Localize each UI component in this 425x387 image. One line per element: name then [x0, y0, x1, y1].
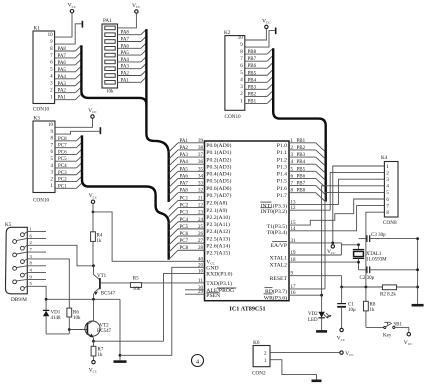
- svg-text:12: 12: [291, 206, 297, 211]
- wire PB8 (K2 pin 8): [245, 49, 273, 55]
- svg-text:GND: GND: [206, 265, 218, 271]
- svg-text:RXD(P3.0): RXD(P3.0): [206, 271, 232, 278]
- svg-text:38: 38: [198, 146, 204, 151]
- svg-text:13: 13: [291, 201, 297, 206]
- svg-text:PA7: PA7: [58, 54, 67, 59]
- svg-text:P0.7(AD7): P0.7(AD7): [206, 192, 231, 199]
- connector K6 CON2: [252, 340, 270, 377]
- svg-text:P0.4(AD4): P0.4(AD4): [206, 171, 231, 178]
- svg-text:VT1: VT1: [97, 274, 107, 279]
- svg-text:PA3: PA3: [180, 153, 189, 158]
- Vcc symbol (K3 pin 10): [88, 108, 97, 118]
- wire PC1 (K3 pin 1): [55, 183, 82, 189]
- ground plate (K1 pin 9): [81, 21, 83, 28]
- svg-text:PB4: PB4: [248, 78, 257, 83]
- svg-text:PC7: PC7: [180, 239, 189, 244]
- LED VD2: [308, 294, 332, 330]
- wire PB7 (K2 pin 7): [245, 56, 273, 62]
- svg-text:K4: K4: [381, 155, 388, 161]
- bus PA (K1/network to P0): [81, 29, 168, 202]
- wire EA node to crystal top: [341, 243, 360, 255]
- pin 21 P2.0 wire PC1: [169, 196, 228, 209]
- svg-text:PB6: PB6: [297, 174, 306, 179]
- svg-text:26: 26: [198, 232, 204, 237]
- svg-text:PB6: PB6: [248, 64, 257, 69]
- svg-text:23: 23: [198, 211, 204, 216]
- svg-text:PB3: PB3: [297, 153, 306, 158]
- svg-text:PC5: PC5: [58, 157, 67, 162]
- crystal XTAL1 11.0593M: [353, 245, 387, 270]
- svg-text:PB7: PB7: [297, 182, 306, 187]
- wire PA8 (network R8): [118, 30, 147, 36]
- svg-text:19: 19: [291, 251, 297, 256]
- svg-text:1k: 1k: [370, 308, 376, 313]
- svg-text:PC2: PC2: [180, 204, 189, 209]
- pin 9 RESET: [270, 272, 342, 282]
- svg-text:K5: K5: [5, 222, 12, 228]
- svg-text:Key: Key: [383, 333, 392, 338]
- svg-text:CON2: CON2: [252, 371, 266, 377]
- svg-text:PA6: PA6: [121, 44, 130, 49]
- svg-text:PC8: PC8: [180, 246, 189, 251]
- bus PB (K2 to P1): [273, 48, 326, 201]
- svg-text:PB4: PB4: [297, 160, 306, 165]
- svg-text:VT2: VT2: [100, 324, 110, 329]
- wire PA7 (network R7): [118, 36, 147, 42]
- wire PA4 (network R4): [118, 57, 147, 63]
- svg-text:BC547: BC547: [97, 329, 112, 334]
- svg-text:C2 30p: C2 30p: [360, 276, 375, 281]
- ground plate (K2 pin 9): [275, 28, 277, 35]
- svg-text:10: 10: [48, 123, 54, 128]
- svg-text:10k: 10k: [106, 90, 114, 95]
- svg-text:C1: C1: [348, 302, 354, 307]
- bus PC (K3 to P2): [82, 135, 169, 259]
- wire PB3 (K2 pin 3): [245, 84, 273, 90]
- svg-text:P2.4(A12): P2.4(A12): [206, 228, 230, 235]
- ground (rail): [114, 360, 127, 363]
- pin 30 ALE/PROG stub: [185, 286, 236, 294]
- wire PC6 (K3 pin 6): [55, 149, 82, 155]
- svg-text:P2.2(A10): P2.2(A10): [206, 214, 230, 221]
- pin 3 P1.2 wire PB3: [277, 153, 325, 166]
- wire K6 pin1 to ground: [270, 360, 317, 380]
- wire PC2 (K3 pin 2): [55, 176, 82, 182]
- connector K4 CON8: [381, 155, 398, 226]
- svg-text:K1: K1: [34, 26, 41, 32]
- wire K2 pin9 to plate: [245, 31, 275, 47]
- pin 1 P1.0 wire PB1: [277, 139, 325, 152]
- wire PB5 (K2 pin 5): [245, 70, 273, 76]
- svg-text:10: 10: [238, 36, 244, 41]
- Vcc symbol (K2 pin 10): [262, 18, 271, 28]
- connector K3 CON10: [33, 116, 55, 204]
- ground (right rail): [412, 304, 424, 307]
- svg-text:10k: 10k: [73, 316, 81, 321]
- svg-text:PA2: PA2: [121, 72, 130, 77]
- resistor R5 10k: [130, 276, 141, 292]
- wire PA8 (K1 pin 8): [55, 45, 82, 52]
- sheet number 4: [192, 355, 204, 367]
- pin 17 RD(P3.7): [265, 285, 326, 295]
- wire PA3 (K1 pin 3): [55, 80, 82, 87]
- node XTAL2/crystal bottom: [357, 261, 360, 264]
- resistor R4 1k: [91, 204, 103, 266]
- svg-text:P1.7: P1.7: [277, 193, 287, 199]
- svg-text:P1.6: P1.6: [277, 186, 287, 192]
- svg-text:BC547: BC547: [101, 291, 116, 296]
- wire K4 pin8 to R8/RESET row: [366, 212, 385, 287]
- wire K1 pin10 to Vcc: [55, 13, 72, 37]
- diode VD1 4148: [43, 299, 61, 334]
- resistor R6 10k: [67, 308, 81, 329]
- Vcc symbol (EA/VP): [327, 242, 336, 256]
- svg-text:PC2: PC2: [58, 178, 67, 183]
- pin 38 P0.1 wire PA2: [169, 146, 232, 159]
- svg-text:1k: 1k: [97, 239, 103, 244]
- wire DB9 pin3 to R6: [27, 259, 69, 308]
- svg-text:CON10: CON10: [33, 107, 50, 113]
- wire PC3 (K3 pin 3): [55, 169, 82, 175]
- svg-text:EA/VP: EA/VP: [271, 243, 287, 249]
- svg-text:P2.6(A14): P2.6(A14): [206, 242, 230, 249]
- pin 33 P0.6 wire PA7: [169, 182, 232, 195]
- pin 7 P1.6 wire PB7: [277, 182, 325, 195]
- wire PC7 (K3 pin 7): [55, 142, 82, 148]
- svg-text:33: 33: [198, 182, 204, 187]
- wire PA6 (network R6): [118, 43, 147, 49]
- wire K4 pin6 to T1: [289, 199, 384, 225]
- wire GND pin20: [120, 267, 205, 355]
- pin 28 P2.7 wire PC8: [169, 246, 231, 259]
- svg-text:XTAL2: XTAL2: [269, 262, 287, 268]
- node VT1 collector: [92, 264, 95, 267]
- svg-text:R8: R8: [370, 302, 376, 307]
- wire K4 pin1 to EA/Vcc node: [333, 166, 385, 243]
- svg-text:PA6: PA6: [180, 174, 189, 179]
- wire PC5 (K3 pin 5): [55, 156, 82, 162]
- svg-text:17: 17: [291, 285, 297, 290]
- transistor VT2 BC547: [85, 299, 112, 341]
- Vcc symbol (K6 pin2): [340, 351, 355, 357]
- svg-text:P1.4: P1.4: [277, 172, 287, 178]
- svg-text:P2.3(A11): P2.3(A11): [206, 221, 230, 228]
- svg-text:R5: R5: [133, 276, 139, 281]
- pin 40 Vcc label: [198, 257, 216, 265]
- ground plate (K3 pin 9): [99, 127, 101, 134]
- svg-text:18: 18: [291, 258, 297, 263]
- pin 23 P2.2 wire PC3: [169, 211, 231, 224]
- svg-text:CON10: CON10: [225, 114, 242, 120]
- connector K1 CON10: [33, 26, 55, 113]
- wire PA2 (K1 pin 2): [55, 87, 82, 94]
- svg-text:PA4: PA4: [121, 58, 130, 63]
- svg-text:28: 28: [198, 246, 204, 251]
- svg-text:P1.5: P1.5: [277, 179, 287, 185]
- pin 35 P0.4 wire PA5: [169, 167, 232, 180]
- svg-text:PB7: PB7: [248, 57, 257, 62]
- svg-text:PC5: PC5: [180, 225, 189, 230]
- svg-text:K3: K3: [34, 116, 41, 122]
- svg-text:PB5: PB5: [248, 71, 257, 76]
- pin 25 P2.4 wire PC5: [169, 225, 231, 238]
- svg-text:PB3: PB3: [248, 85, 257, 90]
- pin 13 INT1(P3.3): [261, 201, 339, 210]
- svg-text:XTAL1: XTAL1: [366, 252, 382, 257]
- svg-text:PB5: PB5: [297, 167, 306, 172]
- svg-text:31: 31: [291, 239, 297, 244]
- svg-text:PA1: PA1: [180, 139, 189, 144]
- svg-text:PA2: PA2: [180, 146, 189, 151]
- svg-text:22: 22: [198, 204, 204, 209]
- resistor R2 8.2k: [380, 285, 397, 297]
- svg-text:10: 10: [48, 33, 54, 38]
- svg-text:27: 27: [198, 239, 204, 244]
- pin 4 P1.3 wire PB4: [277, 160, 325, 173]
- Vcc symbol (R7 bottom): [89, 360, 98, 373]
- svg-text:PA7: PA7: [180, 182, 189, 187]
- wire PB2 (K2 pin 2): [245, 91, 273, 97]
- svg-text:39: 39: [198, 139, 204, 144]
- svg-text:PA5: PA5: [58, 68, 67, 73]
- wire PA5 (K1 pin 5): [55, 66, 82, 73]
- svg-text:11.0593M: 11.0593M: [366, 257, 387, 262]
- wire K3 pin9 to plate: [55, 131, 100, 134]
- svg-text:P1.1: P1.1: [277, 150, 287, 156]
- svg-text:29: 29: [198, 290, 204, 295]
- svg-text:21: 21: [198, 196, 204, 201]
- svg-text:INT0(P3.2): INT0(P3.2): [261, 208, 287, 215]
- svg-text:PC1: PC1: [58, 184, 67, 189]
- svg-text:PB2: PB2: [248, 92, 257, 97]
- svg-text:XTAL1: XTAL1: [269, 255, 287, 261]
- svg-text:PB1: PB1: [297, 139, 306, 144]
- pin 8 P1.7 wire PB8: [277, 189, 325, 202]
- svg-text:35: 35: [198, 167, 204, 172]
- pin 20 GND label: [198, 263, 219, 271]
- wire VD1/R6 bottom to VT2 base: [46, 328, 87, 334]
- Vcc symbol (C1 bottom): [337, 328, 346, 342]
- pin 36 P0.3 wire PA4: [169, 160, 232, 173]
- wire PC8 (K3 pin 8): [55, 135, 82, 141]
- pin 26 P2.5 wire PC6: [169, 232, 231, 245]
- svg-text:PA7: PA7: [121, 38, 130, 43]
- svg-text:SB1: SB1: [393, 323, 402, 328]
- svg-text:P2.0(A8): P2.0(A8): [206, 200, 227, 207]
- svg-text:R4: R4: [97, 233, 103, 238]
- svg-text:P2.5(A13): P2.5(A13): [206, 235, 230, 242]
- pin 14 T0(P3.4): [267, 227, 296, 236]
- svg-text:K2: K2: [224, 30, 231, 36]
- wire VT2 emitter to RXD: [92, 273, 204, 342]
- svg-text:PA3: PA3: [121, 65, 130, 70]
- wire PA1 (network R1): [118, 77, 147, 83]
- svg-text:P0.1(AD1): P0.1(AD1): [206, 149, 231, 156]
- svg-text:PA3: PA3: [58, 82, 67, 87]
- svg-text:PB8: PB8: [297, 189, 306, 194]
- svg-text:PB1: PB1: [248, 99, 257, 104]
- capacitor C2 30p: [359, 266, 418, 280]
- svg-text:PC6: PC6: [180, 232, 189, 237]
- resistor network PA1 10k: [102, 18, 118, 95]
- capacitor C3 30p: [359, 233, 418, 242]
- svg-text:PC6: PC6: [58, 150, 67, 155]
- wire network common to Vcc: [118, 13, 137, 28]
- svg-text:CON8: CON8: [383, 220, 397, 226]
- switch SB1 Key: [366, 322, 409, 338]
- transistor VT1 BC547: [94, 266, 116, 300]
- pin 22 P2.1 wire PC2: [169, 204, 228, 217]
- wire PA2 (network R2): [118, 70, 147, 76]
- wire K2 pin10 to Vcc: [245, 29, 267, 40]
- wire PB4 (K2 pin 4): [245, 77, 273, 83]
- wire PA6 (K1 pin 6): [55, 59, 82, 66]
- svg-text:R6: R6: [73, 310, 79, 315]
- svg-text:P2.7(A15): P2.7(A15): [206, 250, 230, 257]
- pin 15 T1(P3.5): [267, 221, 296, 230]
- connector K5 DB9/M: [5, 222, 27, 303]
- svg-text:PC3: PC3: [180, 211, 189, 216]
- wire TXD/R5 base row: [101, 282, 205, 284]
- svg-text:K6: K6: [253, 340, 260, 346]
- svg-text:C3 30p: C3 30p: [371, 233, 386, 238]
- wire PC4 (K3 pin 4): [55, 163, 82, 169]
- wire DB9 pin5 to ground rail: [27, 286, 46, 299]
- svg-text:PB8: PB8: [248, 50, 257, 55]
- svg-text:PA5: PA5: [180, 167, 189, 172]
- svg-text:R7: R7: [98, 347, 104, 352]
- wire DB9 pin2 to VT1 collector: [27, 245, 93, 265]
- pin 39 P0.0 wire PA1: [169, 139, 232, 152]
- svg-text:LED: LED: [308, 318, 318, 323]
- pin 10 RXD label: [198, 269, 232, 277]
- svg-text:P0.3(AD3): P0.3(AD3): [206, 163, 231, 170]
- svg-text:P0.0(AD0): P0.0(AD0): [206, 142, 231, 149]
- pin 27 P2.6 wire PC7: [169, 239, 231, 252]
- pin 19 XTAL1: [269, 251, 341, 261]
- wire PA3 (network R3): [118, 64, 147, 70]
- svg-text:P1.3: P1.3: [277, 164, 287, 170]
- svg-text:PA1: PA1: [121, 78, 130, 83]
- svg-text:PC8: PC8: [58, 137, 67, 142]
- IC IC1 AT89C51 (microcontroller body): [205, 141, 290, 312]
- wire RESET row: [340, 276, 417, 289]
- svg-text:36: 36: [198, 160, 204, 165]
- svg-text:1k: 1k: [98, 353, 104, 358]
- Vcc symbol (SB1): [404, 333, 413, 347]
- svg-text:PB2: PB2: [297, 146, 306, 151]
- wire PA4 (K1 pin 4): [55, 73, 82, 80]
- svg-text:PC4: PC4: [180, 218, 189, 223]
- svg-text:P1.2: P1.2: [277, 157, 287, 163]
- svg-text:P0.6(AD6): P0.6(AD6): [206, 185, 231, 192]
- svg-text:T0(P3.4): T0(P3.4): [267, 229, 287, 236]
- ground (VD2): [316, 330, 327, 333]
- svg-text:PA8: PA8: [180, 189, 189, 194]
- svg-text:24: 24: [198, 218, 204, 223]
- svg-text:PA4: PA4: [58, 75, 67, 80]
- wire K4 pin7 to T0: [289, 206, 384, 231]
- pin 6 P1.5 wire PB6: [277, 174, 325, 187]
- svg-text:PA8: PA8: [58, 47, 67, 52]
- wire PA5 (network R5): [118, 50, 147, 56]
- svg-text:PA2: PA2: [58, 89, 67, 94]
- wire K3 pin10 to Vcc: [55, 118, 93, 127]
- pin 32 P0.7 wire PA8: [169, 189, 232, 202]
- svg-text:37: 37: [198, 153, 204, 158]
- svg-text:CON10: CON10: [33, 198, 50, 204]
- Vcc symbol (R4): [89, 193, 98, 203]
- svg-text:P1.0: P1.0: [277, 143, 287, 149]
- svg-text:P0.5(AD5): P0.5(AD5): [206, 178, 231, 185]
- svg-text:RESET: RESET: [270, 276, 288, 282]
- pin 31 EA/VP: [271, 239, 342, 249]
- svg-text:VD1: VD1: [51, 310, 61, 315]
- svg-text:10μ: 10μ: [348, 308, 356, 313]
- pin 2 P1.1 wire PB2: [277, 146, 325, 159]
- capacitor C1 10u (polarized): [337, 287, 356, 328]
- svg-text:32: 32: [198, 189, 204, 194]
- Vcc symbol (K1 pin 10): [68, 3, 77, 13]
- svg-text:PA8: PA8: [121, 31, 130, 36]
- svg-text:PC4: PC4: [58, 164, 67, 169]
- svg-text:IC1 AT89C51: IC1 AT89C51: [229, 305, 265, 312]
- pin 37 P0.2 wire PA3: [169, 153, 232, 166]
- wire K4 pin2 to INT0: [330, 173, 384, 211]
- svg-text:R2 8.2k: R2 8.2k: [380, 292, 396, 297]
- wire Vcc branch to IC pin 40: [92, 211, 205, 262]
- svg-text:34: 34: [198, 174, 204, 179]
- svg-text:PA6: PA6: [58, 61, 67, 66]
- wire K4 pin5 to RD: [325, 192, 384, 289]
- wire PB1 (K2 pin 1): [245, 98, 273, 104]
- svg-text:VD2: VD2: [308, 312, 318, 317]
- Vcc symbol (network common): [132, 3, 141, 13]
- wire right rail: [416, 237, 419, 304]
- svg-text:WR(P3.6): WR(P3.6): [264, 295, 287, 302]
- svg-text:DB9/M: DB9/M: [11, 297, 27, 303]
- connector K2 CON10: [224, 30, 245, 120]
- pin 34 P0.5 wire PA6: [169, 174, 232, 187]
- svg-text:PC1: PC1: [180, 196, 189, 201]
- svg-text:PC3: PC3: [58, 171, 67, 176]
- ground (K6): [312, 379, 322, 382]
- wire PA7 (K1 pin 7): [55, 52, 82, 59]
- svg-text:PC7: PC7: [58, 144, 67, 149]
- svg-text:TXD(P3.1): TXD(P3.1): [206, 280, 232, 287]
- pin 16 WR(P3.6): [264, 291, 322, 302]
- svg-text:P2.1(A9): P2.1(A9): [206, 207, 227, 214]
- resistor R7 1k: [91, 341, 104, 360]
- resistor R8 1k: [364, 287, 376, 327]
- wire K4 pin4 to WR: [322, 186, 385, 295]
- svg-text:25: 25: [198, 225, 204, 230]
- pin 24 P2.3 wire PC4: [169, 218, 230, 231]
- svg-text:PA4: PA4: [180, 160, 189, 165]
- pin 29 PSEN stub: [185, 290, 220, 299]
- svg-text:4148: 4148: [51, 316, 62, 321]
- svg-text:16: 16: [291, 291, 297, 296]
- svg-text:P0.2(AD2): P0.2(AD2): [206, 156, 231, 163]
- wires DB9 pin stubs: [16, 227, 46, 288]
- pin 12 INT0(P3.2): [261, 206, 331, 215]
- wire K6 pin2 to Vcc: [270, 352, 340, 354]
- svg-text:10k: 10k: [133, 287, 141, 292]
- wire PB6 (K2 pin 6): [245, 63, 273, 69]
- pin 18 XTAL2: [269, 258, 358, 268]
- wire K1 pin9 to plate: [55, 24, 82, 44]
- svg-text:PA1: PA1: [103, 18, 112, 24]
